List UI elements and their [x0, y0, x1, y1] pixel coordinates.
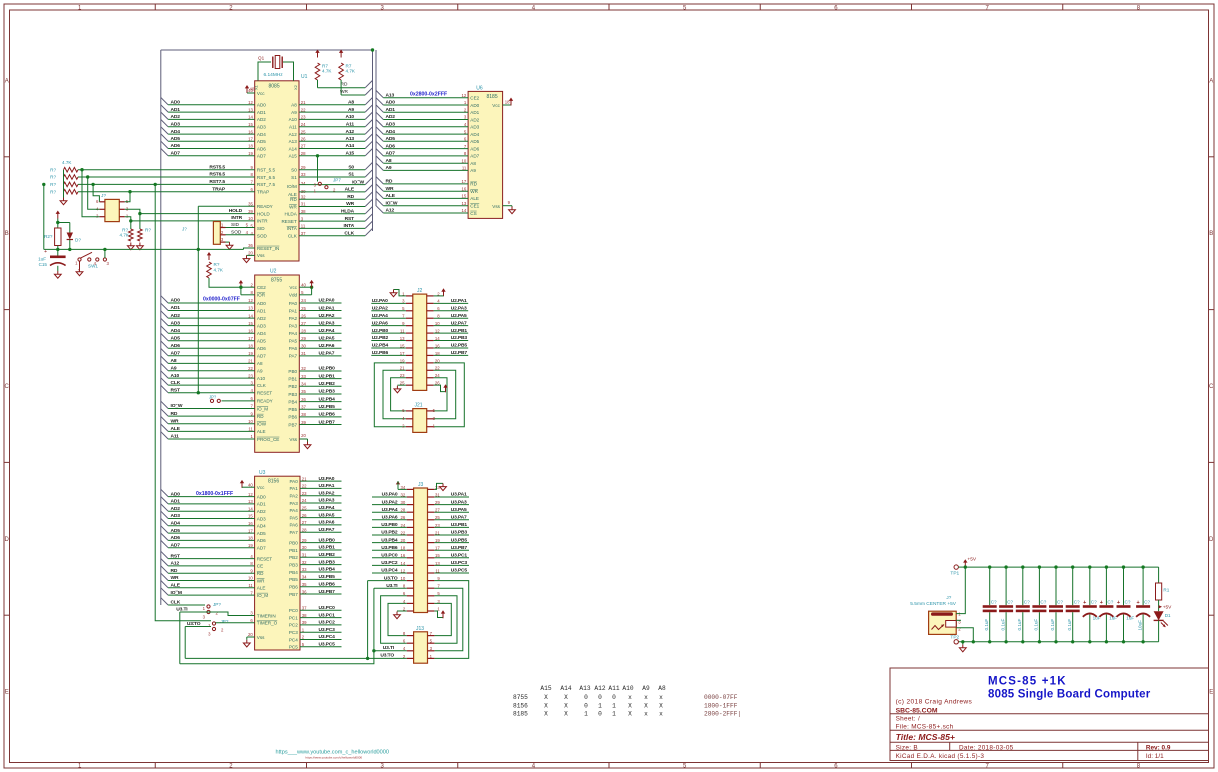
svg-text:4.7K: 4.7K: [62, 160, 72, 165]
svg-text:C?: C?: [1007, 599, 1013, 604]
svg-text:A8: A8: [470, 161, 476, 166]
svg-text:PC1: PC1: [289, 615, 298, 620]
wire bundle U1 right pins to bus (A8-A15 S0 S1 IO_W ALE RD WR HLDA RST INTA CLK): [299, 98, 373, 237]
svg-text:PA2: PA2: [289, 316, 298, 321]
svg-text:U3.PC1: U3.PC1: [319, 612, 336, 618]
svg-text:32: 32: [301, 194, 306, 199]
svg-text:SOD: SOD: [231, 229, 242, 235]
svg-text:PA5: PA5: [289, 339, 298, 344]
wire RST7.5 to reset RC net: [43, 184, 45, 249]
svg-text:10: 10: [248, 576, 253, 581]
svg-text:30: 30: [301, 344, 306, 349]
svg-text:WR: WR: [386, 186, 394, 192]
svg-text:AD5: AD5: [386, 136, 396, 142]
svg-text:AD7: AD7: [171, 151, 181, 157]
svg-text:RST: RST: [171, 387, 180, 393]
jumper JP? timer in select: [203, 602, 222, 620]
svg-text:A15: A15: [289, 154, 298, 159]
svg-text:31: 31: [301, 202, 306, 207]
svg-text:(c) 2018 Craig Andrews: (c) 2018 Craig Andrews: [896, 699, 973, 706]
peripheral U2 8755 body: [255, 269, 300, 453]
table address decode 8755/8156/8185: [513, 685, 741, 718]
svg-text:U3.PC3: U3.PC3: [319, 627, 336, 633]
connector J? 5.5mm barrel jack: [910, 595, 961, 634]
text sheet and file: [896, 715, 954, 730]
svg-text:2800-2FFF|: 2800-2FFF|: [704, 711, 741, 718]
svg-text:CE2: CE2: [470, 96, 479, 101]
svg-text:PB4: PB4: [289, 570, 298, 575]
svg-text:U3.PB5: U3.PB5: [451, 537, 468, 543]
svg-text:14: 14: [248, 313, 253, 318]
svg-text:Id: 1/1: Id: 1/1: [1146, 753, 1164, 760]
svg-text:AD4: AD4: [386, 129, 396, 135]
svg-text:34: 34: [301, 382, 306, 387]
svg-text:1: 1: [75, 261, 78, 266]
svg-text:E: E: [5, 690, 9, 696]
svg-text:AD1: AD1: [257, 110, 266, 115]
svg-text:32: 32: [302, 560, 307, 565]
peripheral U3 8156 body: [255, 470, 300, 650]
svg-text:PB0: PB0: [289, 540, 298, 545]
svg-text:40: 40: [301, 282, 306, 287]
svg-text:U2.PB0: U2.PB0: [372, 328, 389, 334]
svg-text:J13: J13: [416, 626, 424, 632]
power +5V to U2 CE2/IOR: [239, 280, 255, 295]
svg-text:0.1uF: 0.1uF: [984, 619, 989, 631]
svg-text:5.5mm CENTER +5V: 5.5mm CENTER +5V: [910, 601, 957, 607]
svg-text:PROG_CE: PROG_CE: [257, 437, 279, 442]
svg-text:31: 31: [301, 351, 306, 356]
svg-text:25: 25: [302, 506, 307, 511]
svg-text:6: 6: [464, 137, 467, 142]
svg-text:https://www.youtube.com/c/hell: https://www.youtube.com/c/helloworld0000: [305, 755, 362, 759]
svg-text:INTA: INTA: [287, 226, 298, 231]
svg-text:IO/M: IO/M: [287, 184, 297, 189]
svg-text:A13: A13: [345, 136, 354, 142]
svg-text:U3.PC5: U3.PC5: [451, 568, 468, 574]
svg-text:0: 0: [598, 711, 602, 718]
svg-text:WR: WR: [171, 419, 179, 425]
svg-text:PA1: PA1: [289, 486, 298, 491]
connector J3 34-pin header: [401, 482, 441, 613]
svg-text:IOR: IOR: [257, 293, 266, 298]
svg-text:RESET_IN: RESET_IN: [257, 246, 279, 251]
connector J13 8-pin header: [403, 626, 434, 663]
svg-text:R1: R1: [1163, 588, 1169, 593]
svg-text:J?: J?: [101, 193, 106, 198]
svg-text:R?: R?: [50, 182, 56, 187]
svg-text:3: 3: [464, 115, 467, 120]
svg-text:A: A: [5, 78, 9, 84]
svg-text:AD3: AD3: [257, 323, 266, 328]
svg-text:U2.PA5: U2.PA5: [451, 313, 467, 319]
svg-text:U3.PA5: U3.PA5: [451, 507, 467, 513]
svg-text:U3.PA3: U3.PA3: [319, 498, 335, 504]
svg-text:4.7K: 4.7K: [322, 69, 332, 74]
svg-text:ALE: ALE: [257, 429, 266, 434]
svg-text:READY: READY: [257, 204, 273, 209]
bus U6 feed: [375, 50, 377, 206]
svg-text:13: 13: [248, 107, 253, 112]
wire RST7.5 vertical run to timer jumpers: [155, 184, 211, 620]
svg-text:MCS-85 +1K: MCS-85 +1K: [988, 676, 1067, 688]
svg-text:WR: WR: [289, 204, 297, 209]
U2 left pins, bus entries and labels: [161, 282, 280, 441]
svg-text:0.1uF: 0.1uF: [1017, 619, 1022, 631]
svg-text:8: 8: [464, 151, 467, 156]
text title MCS-85 +1K 8085 Single Board Computer: [988, 676, 1151, 701]
svg-text:AD0: AD0: [470, 103, 479, 108]
wire bundle J3 port nets U3.PA0-U3.PC5: [372, 492, 469, 574]
svg-text:U2.PB4: U2.PB4: [319, 396, 336, 402]
svg-text:PB3: PB3: [289, 562, 298, 567]
svg-text:2: 2: [78, 268, 81, 273]
svg-text:PB5: PB5: [288, 407, 297, 412]
svg-text:PA2: PA2: [289, 494, 298, 499]
svg-text:7: 7: [464, 144, 467, 149]
svg-text:12: 12: [248, 100, 253, 105]
svg-text:A11: A11: [289, 125, 297, 130]
svg-text:AD4: AD4: [257, 132, 266, 137]
power +5V at J3 pin 34: [396, 481, 407, 489]
svg-text:19: 19: [248, 351, 253, 356]
svg-text:15: 15: [248, 321, 253, 326]
svg-text:21: 21: [302, 476, 307, 481]
svg-text:9: 9: [508, 200, 511, 205]
svg-text:28: 28: [301, 328, 306, 333]
svg-text:R?: R?: [50, 189, 56, 194]
svg-text:A10: A10: [289, 117, 298, 122]
svg-text:U2.PA1: U2.PA1: [319, 305, 335, 311]
wire U3.TO to TIMER_O: [185, 621, 254, 658]
svg-text:U3.TO: U3.TO: [380, 653, 394, 659]
capacitor C? bypass 5: [1049, 565, 1063, 643]
svg-text:5: 5: [683, 764, 687, 770]
svg-text:AD6: AD6: [470, 146, 479, 151]
svg-text:PA7: PA7: [289, 530, 298, 535]
svg-text:U3.PA2: U3.PA2: [319, 490, 335, 496]
svg-text:CLK: CLK: [344, 230, 354, 236]
svg-text:4.7K: 4.7K: [346, 69, 356, 74]
svg-text:X: X: [544, 711, 548, 718]
svg-text:23: 23: [248, 373, 253, 378]
svg-text:U3.PA7: U3.PA7: [451, 515, 467, 521]
wire U3.TI from J3 pin 8 down to J13: [372, 583, 407, 653]
ground at U6 Vss pin 9: [503, 200, 516, 214]
svg-text:U3.PA0: U3.PA0: [382, 492, 398, 498]
svg-text:U3.PA5: U3.PA5: [319, 512, 335, 518]
svg-text:RD: RD: [347, 194, 354, 200]
LED D1 power indicator: [1154, 611, 1171, 642]
svg-text:U2.PA3: U2.PA3: [319, 320, 335, 326]
svg-text:A13: A13: [579, 685, 590, 692]
svg-text:IO_M: IO_M: [171, 590, 182, 596]
jumper JP7 at IO/M select: [314, 154, 342, 193]
svg-text:+: +: [1100, 600, 1103, 606]
text address range 0x2800-0x2FFF: [410, 91, 447, 97]
svg-text:13: 13: [462, 201, 467, 206]
svg-text:U2.PB5: U2.PB5: [451, 343, 468, 349]
svg-text:8185: 8185: [513, 711, 528, 718]
svg-text:Vcc: Vcc: [492, 103, 500, 108]
wire bundle U2 PA/PB port pins with labels: [288, 298, 341, 428]
svg-text:U2.PB1: U2.PB1: [451, 328, 468, 334]
svg-text:29: 29: [301, 165, 306, 170]
svg-text:1: 1: [208, 623, 211, 628]
svg-text:3: 3: [301, 216, 304, 221]
svg-text:AD1: AD1: [386, 107, 396, 113]
svg-text:A8: A8: [658, 685, 666, 692]
text address range 0x1800-0x1FFF: [196, 491, 233, 497]
svg-text:8: 8: [251, 290, 254, 295]
svg-text:16: 16: [248, 521, 253, 526]
svg-text:Vcc: Vcc: [257, 91, 265, 96]
svg-text:J?: J?: [182, 227, 187, 232]
wire SOD J7.2 to U1 pin 4: [226, 229, 255, 235]
svg-text:8755: 8755: [271, 278, 282, 284]
svg-text:CE2: CE2: [257, 285, 266, 290]
bus top horizontal: [161, 49, 373, 51]
svg-text:A10: A10: [622, 685, 633, 692]
svg-text:24: 24: [302, 498, 307, 503]
svg-text:40: 40: [248, 482, 253, 487]
svg-text:AD7: AD7: [257, 354, 266, 359]
wire CLK to timer jumper: [161, 598, 205, 606]
svg-text:AD3: AD3: [470, 125, 479, 130]
svg-text:7: 7: [251, 180, 254, 185]
svg-text:U2.PB7: U2.PB7: [319, 419, 336, 425]
svg-text:PA0: PA0: [289, 301, 298, 306]
svg-text:17: 17: [248, 528, 253, 533]
svg-text:3: 3: [250, 611, 253, 616]
svg-text:WR: WR: [171, 575, 179, 581]
svg-text:RESET: RESET: [257, 391, 273, 396]
svg-text:36: 36: [301, 397, 306, 402]
svg-text:B: B: [1209, 231, 1213, 237]
svg-text:12: 12: [248, 298, 253, 303]
svg-text:U3.PB4: U3.PB4: [319, 567, 336, 573]
svg-text:10: 10: [248, 216, 253, 221]
svg-text:27: 27: [301, 321, 306, 326]
svg-text:AD4: AD4: [171, 129, 181, 135]
testpoint TP2: [950, 635, 959, 644]
svg-text:AD4: AD4: [470, 132, 479, 137]
svg-text:SID: SID: [231, 222, 240, 228]
svg-text:28: 28: [301, 151, 306, 156]
svg-text:RD: RD: [290, 197, 297, 202]
svg-text:AD3: AD3: [257, 125, 266, 130]
svg-text:PA3: PA3: [289, 323, 298, 328]
svg-text:U2.PB4: U2.PB4: [372, 343, 389, 349]
svg-text:PA6: PA6: [289, 523, 298, 528]
svg-text:R?: R?: [50, 167, 56, 172]
svg-text:AD2: AD2: [257, 509, 266, 514]
svg-text:U2.PA6: U2.PA6: [319, 343, 335, 349]
svg-text:AD3: AD3: [171, 513, 181, 519]
svg-text:8755: 8755: [513, 694, 528, 701]
svg-text:AD0: AD0: [257, 301, 266, 306]
svg-text:+5V: +5V: [967, 556, 976, 562]
svg-text:Vcc: Vcc: [257, 485, 265, 490]
wire top +5V rail: [965, 566, 1158, 568]
svg-text:4.7K: 4.7K: [120, 233, 130, 238]
svg-text:34: 34: [301, 181, 306, 186]
svg-text:PB4: PB4: [288, 399, 297, 404]
svg-text:S0: S0: [291, 168, 297, 173]
svg-text:AD0: AD0: [257, 103, 266, 108]
svg-text:CE1: CE1: [470, 204, 479, 209]
svg-text:RESET: RESET: [257, 556, 273, 561]
svg-text:PB7: PB7: [289, 592, 298, 597]
switch SW1 reset pushbutton: [75, 248, 109, 276]
svg-text:U3.PB4: U3.PB4: [381, 537, 398, 543]
svg-text:A12: A12: [345, 129, 354, 135]
memory U6 8185 body: [468, 86, 503, 219]
svg-text:3: 3: [251, 380, 254, 385]
wire READY / reset net vertical riser: [197, 206, 255, 394]
ground at J3 pin 2: [394, 611, 407, 619]
svg-text:RST: RST: [171, 553, 180, 559]
svg-text:PA0: PA0: [289, 479, 298, 484]
svg-text:AD6: AD6: [257, 146, 266, 151]
svg-text:TIMER_O: TIMER_O: [257, 621, 278, 626]
svg-text:TIMERIN: TIMERIN: [257, 613, 276, 618]
svg-text:22: 22: [301, 107, 306, 112]
svg-text:+: +: [1136, 600, 1139, 606]
svg-text:A: A: [1209, 78, 1213, 84]
svg-text:14: 14: [248, 506, 253, 511]
svg-text:RD: RD: [257, 414, 264, 419]
text Title MCS-85+: [896, 732, 955, 742]
junction bus corner: [371, 48, 374, 51]
svg-text:37: 37: [301, 231, 306, 236]
svg-text:5: 5: [302, 642, 305, 647]
wires RST rows to jumper block left pins: [82, 170, 99, 217]
svg-text:7: 7: [985, 764, 989, 770]
svg-text:C?: C?: [1107, 599, 1113, 604]
svg-text:AD7: AD7: [257, 154, 266, 159]
svg-text:AD1: AD1: [171, 499, 181, 505]
svg-text:U3.PC4: U3.PC4: [381, 568, 398, 574]
svg-text:A15: A15: [345, 151, 354, 157]
svg-text:10: 10: [462, 158, 467, 163]
svg-text:HOLD: HOLD: [257, 211, 270, 216]
svg-text:15: 15: [462, 194, 467, 199]
svg-text:A9: A9: [291, 110, 297, 115]
svg-text:AD7: AD7: [470, 154, 479, 159]
svg-text:ALE: ALE: [386, 193, 396, 199]
svg-text:SID: SID: [257, 226, 265, 231]
svg-text:A13: A13: [386, 92, 395, 98]
svg-text:2: 2: [464, 107, 467, 112]
svg-text:U2.PA2: U2.PA2: [372, 305, 388, 311]
svg-text:29: 29: [302, 538, 307, 543]
svg-text:A12: A12: [594, 685, 605, 692]
svg-text:18: 18: [248, 344, 253, 349]
svg-text:AD7: AD7: [257, 546, 266, 551]
svg-text:0000-07FF: 0000-07FF: [704, 694, 738, 701]
svg-text:AD7: AD7: [171, 542, 181, 548]
svg-text:RD: RD: [171, 568, 178, 574]
svg-text:10: 10: [248, 419, 253, 424]
svg-text:PC4: PC4: [289, 637, 298, 642]
wire bundle AD0-AD7 from bus to U1: [161, 98, 255, 157]
svg-text:17: 17: [248, 336, 253, 341]
svg-text:E: E: [1209, 690, 1213, 696]
svg-text:ALE: ALE: [257, 586, 266, 591]
svg-text:16: 16: [462, 186, 467, 191]
svg-text:8: 8: [250, 561, 253, 566]
svg-text:A11: A11: [608, 685, 619, 692]
wire long U3.TI run to J13 pin 4: [180, 645, 407, 664]
svg-text:S1: S1: [348, 172, 354, 178]
text size date rev: [896, 744, 1171, 751]
svg-text:U3.PB3: U3.PB3: [451, 530, 468, 536]
svg-text:U3.PB7: U3.PB7: [319, 589, 336, 595]
capacitor C? bypass 4: [1032, 565, 1046, 643]
svg-text:X: X: [564, 694, 568, 701]
svg-text:0: 0: [584, 694, 588, 701]
svg-text:15: 15: [248, 122, 253, 127]
svg-text:12: 12: [248, 492, 253, 497]
svg-text:0: 0: [598, 694, 602, 701]
svg-text:A8: A8: [348, 100, 354, 106]
svg-text:RST_7.5: RST_7.5: [257, 182, 276, 187]
U3 left pins, bus entries and labels: [161, 482, 278, 639]
svg-text:C?: C?: [1144, 599, 1150, 604]
svg-text:39: 39: [248, 209, 253, 214]
power +5V at U3 Vcc pin 40: [240, 480, 255, 488]
svg-text:AD0: AD0: [171, 491, 181, 497]
svg-text:INTA: INTA: [344, 223, 355, 229]
svg-text:PB2: PB2: [288, 384, 297, 389]
svg-text:3: 3: [380, 764, 384, 770]
svg-text:32: 32: [301, 366, 306, 371]
crystal Y1 6.14MHz: [258, 56, 294, 81]
svg-text:4: 4: [251, 388, 254, 393]
svg-text:2: 2: [302, 635, 305, 640]
svg-text:RST7.5: RST7.5: [209, 179, 225, 185]
svg-text:U3.PA2: U3.PA2: [382, 499, 398, 505]
svg-text:C: C: [5, 384, 10, 390]
svg-text:10uF: 10uF: [1137, 620, 1142, 631]
svg-text:19: 19: [248, 543, 253, 548]
svg-text:CLK: CLK: [288, 234, 298, 239]
wire long U3.TO run to J13 pin 2: [185, 653, 407, 659]
svg-text:A9: A9: [470, 168, 476, 173]
svg-text:0x1800-0x1FFF: 0x1800-0x1FFF: [196, 491, 233, 497]
svg-text:3: 3: [107, 261, 110, 266]
svg-text:12: 12: [462, 93, 467, 98]
svg-text:IO_W: IO_W: [352, 179, 364, 185]
svg-text:A11: A11: [346, 122, 355, 128]
svg-text:A9: A9: [257, 369, 263, 374]
svg-text:AD4: AD4: [257, 524, 266, 529]
svg-text:22: 22: [302, 484, 307, 489]
svg-text:4: 4: [464, 122, 467, 127]
svg-text:25: 25: [301, 129, 306, 134]
svg-text:0.1uF: 0.1uF: [1067, 619, 1072, 631]
svg-text:RST6.5: RST6.5: [209, 172, 225, 178]
wire barrel pin 1 to +5V rail: [956, 567, 965, 614]
power +5V at U6 Vcc pin 18: [503, 98, 514, 106]
svg-text:WR: WR: [340, 89, 349, 95]
svg-text:U2.PA4: U2.PA4: [319, 328, 335, 334]
capacitor C? bypass 3: [1016, 565, 1030, 643]
svg-text:U3.PA3: U3.PA3: [451, 499, 467, 505]
svg-text:AD1: AD1: [171, 107, 181, 113]
svg-text:26: 26: [301, 313, 306, 318]
